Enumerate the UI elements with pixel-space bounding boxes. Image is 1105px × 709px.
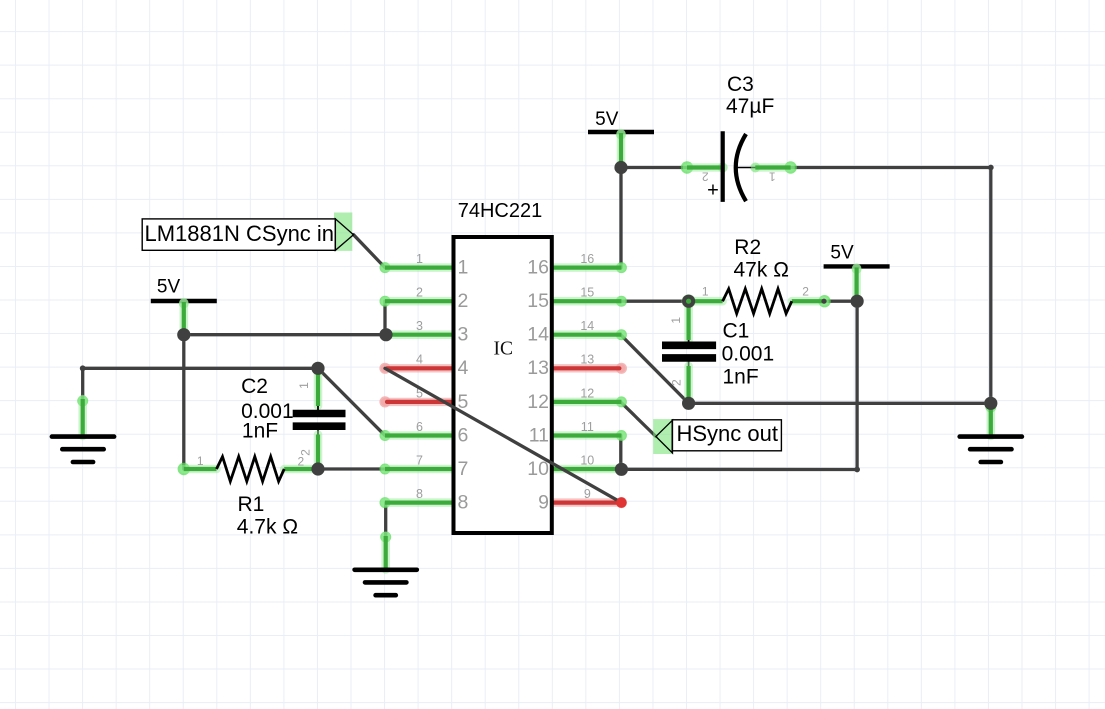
wire pin12 diagonal to HSync flag bbox=[621, 402, 656, 437]
svg-text:1: 1 bbox=[458, 257, 469, 279]
pin 12 stub bbox=[616, 396, 627, 407]
svg-text:2: 2 bbox=[458, 290, 469, 312]
svg-text:11: 11 bbox=[581, 420, 594, 434]
capacitor C3 47uF bbox=[681, 161, 693, 173]
svg-text:C3: C3 bbox=[727, 73, 754, 96]
svg-text:8: 8 bbox=[416, 487, 423, 501]
wire pin16 up to 5V-top node bbox=[619, 168, 622, 268]
node right rail bend bbox=[988, 165, 994, 171]
ground GND3 bbox=[985, 402, 996, 413]
node R2 pin2 bend bbox=[821, 299, 826, 304]
svg-text:HSync out: HSync out bbox=[677, 421, 779, 446]
node left bend bbox=[80, 365, 86, 371]
node pin10 bend bbox=[854, 467, 860, 473]
wire C2 node to left bend bbox=[83, 367, 318, 370]
resistor R1 4.7k bbox=[178, 463, 190, 475]
ground GND1 bbox=[77, 396, 88, 407]
svg-text:4: 4 bbox=[458, 357, 469, 379]
svg-text:1: 1 bbox=[197, 454, 204, 468]
svg-text:R2: R2 bbox=[734, 236, 761, 259]
svg-text:13: 13 bbox=[527, 357, 549, 379]
pin 2 stub bbox=[380, 296, 391, 307]
terminal glow markers bbox=[177, 328, 190, 341]
svg-text:2: 2 bbox=[416, 286, 423, 300]
pin 3 stub bbox=[380, 329, 391, 340]
node R2 pin1 junction bbox=[682, 295, 695, 308]
svg-text:5V: 5V bbox=[157, 277, 181, 298]
svg-text:7: 7 bbox=[416, 453, 423, 467]
node pin9 endpoint bbox=[616, 497, 627, 508]
svg-text:1: 1 bbox=[297, 382, 311, 389]
wire pin15 to R2 node bbox=[620, 300, 689, 303]
node C2 pin1 junction bbox=[311, 362, 324, 375]
pin 1 stub bbox=[380, 262, 391, 273]
svg-text:R1: R1 bbox=[238, 493, 265, 516]
svg-text:5V: 5V bbox=[595, 109, 619, 130]
svg-text:1: 1 bbox=[416, 252, 423, 266]
svg-text:4: 4 bbox=[416, 353, 423, 367]
svg-text:IC: IC bbox=[494, 339, 514, 360]
net label HSync out bbox=[653, 419, 672, 454]
svg-text:14: 14 bbox=[527, 324, 549, 346]
wire right rail to C1 pin2 node bbox=[689, 402, 991, 405]
capacitor C1 0.001 1nF bbox=[684, 301, 693, 340]
svg-text:6: 6 bbox=[416, 420, 423, 434]
svg-text:1nF: 1nF bbox=[242, 419, 278, 442]
wire 5V-right node down bbox=[855, 301, 858, 469]
pin 6 stub bbox=[380, 430, 391, 441]
svg-text:6: 6 bbox=[458, 424, 469, 446]
svg-text:47µF: 47µF bbox=[726, 95, 774, 118]
pin 9 stub bbox=[616, 497, 627, 508]
svg-text:10: 10 bbox=[580, 453, 594, 467]
ground GND2 bbox=[380, 532, 391, 543]
node 5V-top junction bbox=[614, 161, 627, 174]
pin 15 stub bbox=[616, 296, 627, 307]
svg-text:16: 16 bbox=[527, 257, 549, 279]
wire 5V-top node to C3 pin2 bbox=[621, 166, 687, 169]
node 5V-left junction bbox=[177, 328, 190, 341]
wire 5V-left node down to R1 pin1 bbox=[182, 335, 185, 469]
svg-text:1: 1 bbox=[769, 170, 776, 184]
capacitor C2 0.001 1nF bbox=[312, 362, 324, 374]
wire right bend to pin10 node bbox=[621, 468, 857, 472]
svg-text:C2: C2 bbox=[241, 375, 268, 398]
svg-text:13: 13 bbox=[580, 353, 594, 367]
resistor R2 47k bbox=[682, 295, 694, 307]
svg-text:2: 2 bbox=[702, 170, 709, 184]
svg-text:15: 15 bbox=[580, 286, 594, 300]
wire right rail down bbox=[989, 168, 992, 404]
svg-text:3: 3 bbox=[458, 324, 469, 346]
pin 8 stub bbox=[380, 497, 391, 508]
svg-text:74HC221: 74HC221 bbox=[458, 200, 543, 222]
svg-text:12: 12 bbox=[527, 391, 549, 413]
pin 7 stub bbox=[380, 464, 391, 475]
node C1 pin2 junction bbox=[682, 397, 695, 410]
svg-text:7: 7 bbox=[458, 458, 469, 480]
svg-text:11: 11 bbox=[529, 424, 549, 446]
wire R2 pin2 to 5V-right node bbox=[824, 300, 857, 303]
svg-text:14: 14 bbox=[580, 319, 594, 333]
svg-text:0.001: 0.001 bbox=[722, 343, 775, 366]
wire C3 pin1 to right rail bbox=[791, 166, 991, 169]
svg-text:2: 2 bbox=[802, 284, 809, 298]
net label LM1881N CSync in bbox=[334, 213, 352, 251]
svg-text:47k Ω: 47k Ω bbox=[734, 258, 789, 281]
pin 10 stub bbox=[616, 464, 627, 475]
pin 13 stub bbox=[616, 363, 627, 374]
wire flag CSync to pin1 bbox=[354, 235, 386, 268]
svg-text:12: 12 bbox=[580, 386, 594, 400]
wire pin4 diagonal to pin9 bbox=[385, 368, 621, 502]
pin 16 stub bbox=[616, 262, 627, 273]
node pin10 junction bbox=[615, 463, 628, 476]
svg-text:2: 2 bbox=[670, 379, 684, 386]
svg-text:LM1881N CSync in: LM1881N CSync in bbox=[145, 221, 335, 246]
wire R1 pin2 to pin7 bbox=[318, 467, 385, 470]
wire C2 node diagonal to pin6 bbox=[318, 368, 385, 435]
svg-text:2: 2 bbox=[299, 449, 313, 456]
svg-text:1: 1 bbox=[702, 284, 709, 298]
svg-text:1nF: 1nF bbox=[723, 365, 759, 388]
svg-text:16: 16 bbox=[580, 252, 594, 266]
svg-text:9: 9 bbox=[538, 492, 549, 514]
wire pin11 down to pin10 node bbox=[619, 436, 622, 470]
node pin3 junction bbox=[379, 328, 392, 341]
wire pin8 down to GND2 bbox=[384, 503, 387, 536]
pin 14 stub bbox=[616, 329, 627, 340]
wire pin2 down to pin3 node bbox=[383, 301, 386, 335]
node R2 pin2 junction bbox=[851, 295, 864, 308]
pin 4 stub bbox=[379, 363, 390, 374]
pin 5 stub bbox=[379, 396, 390, 407]
op-amp U1 IC 74HC221 bbox=[454, 237, 552, 533]
node right rail ground junction bbox=[984, 397, 997, 410]
wire pin14 diagonal to C1 pin2 node bbox=[621, 335, 689, 404]
svg-text:1: 1 bbox=[669, 317, 683, 324]
wire left bend down to GND1 bbox=[81, 368, 84, 400]
wire 5V-left node to pin3 node bbox=[184, 333, 385, 336]
svg-text:9: 9 bbox=[584, 487, 591, 501]
svg-text:15: 15 bbox=[527, 290, 549, 312]
svg-text:C1: C1 bbox=[723, 320, 750, 343]
svg-text:4.7k Ω: 4.7k Ω bbox=[237, 516, 298, 539]
svg-text:3: 3 bbox=[416, 319, 423, 333]
svg-text:5V: 5V bbox=[830, 243, 854, 264]
svg-text:8: 8 bbox=[458, 492, 469, 514]
node R1 pin2 junction bbox=[311, 462, 324, 475]
pin 11 stub bbox=[616, 430, 627, 441]
